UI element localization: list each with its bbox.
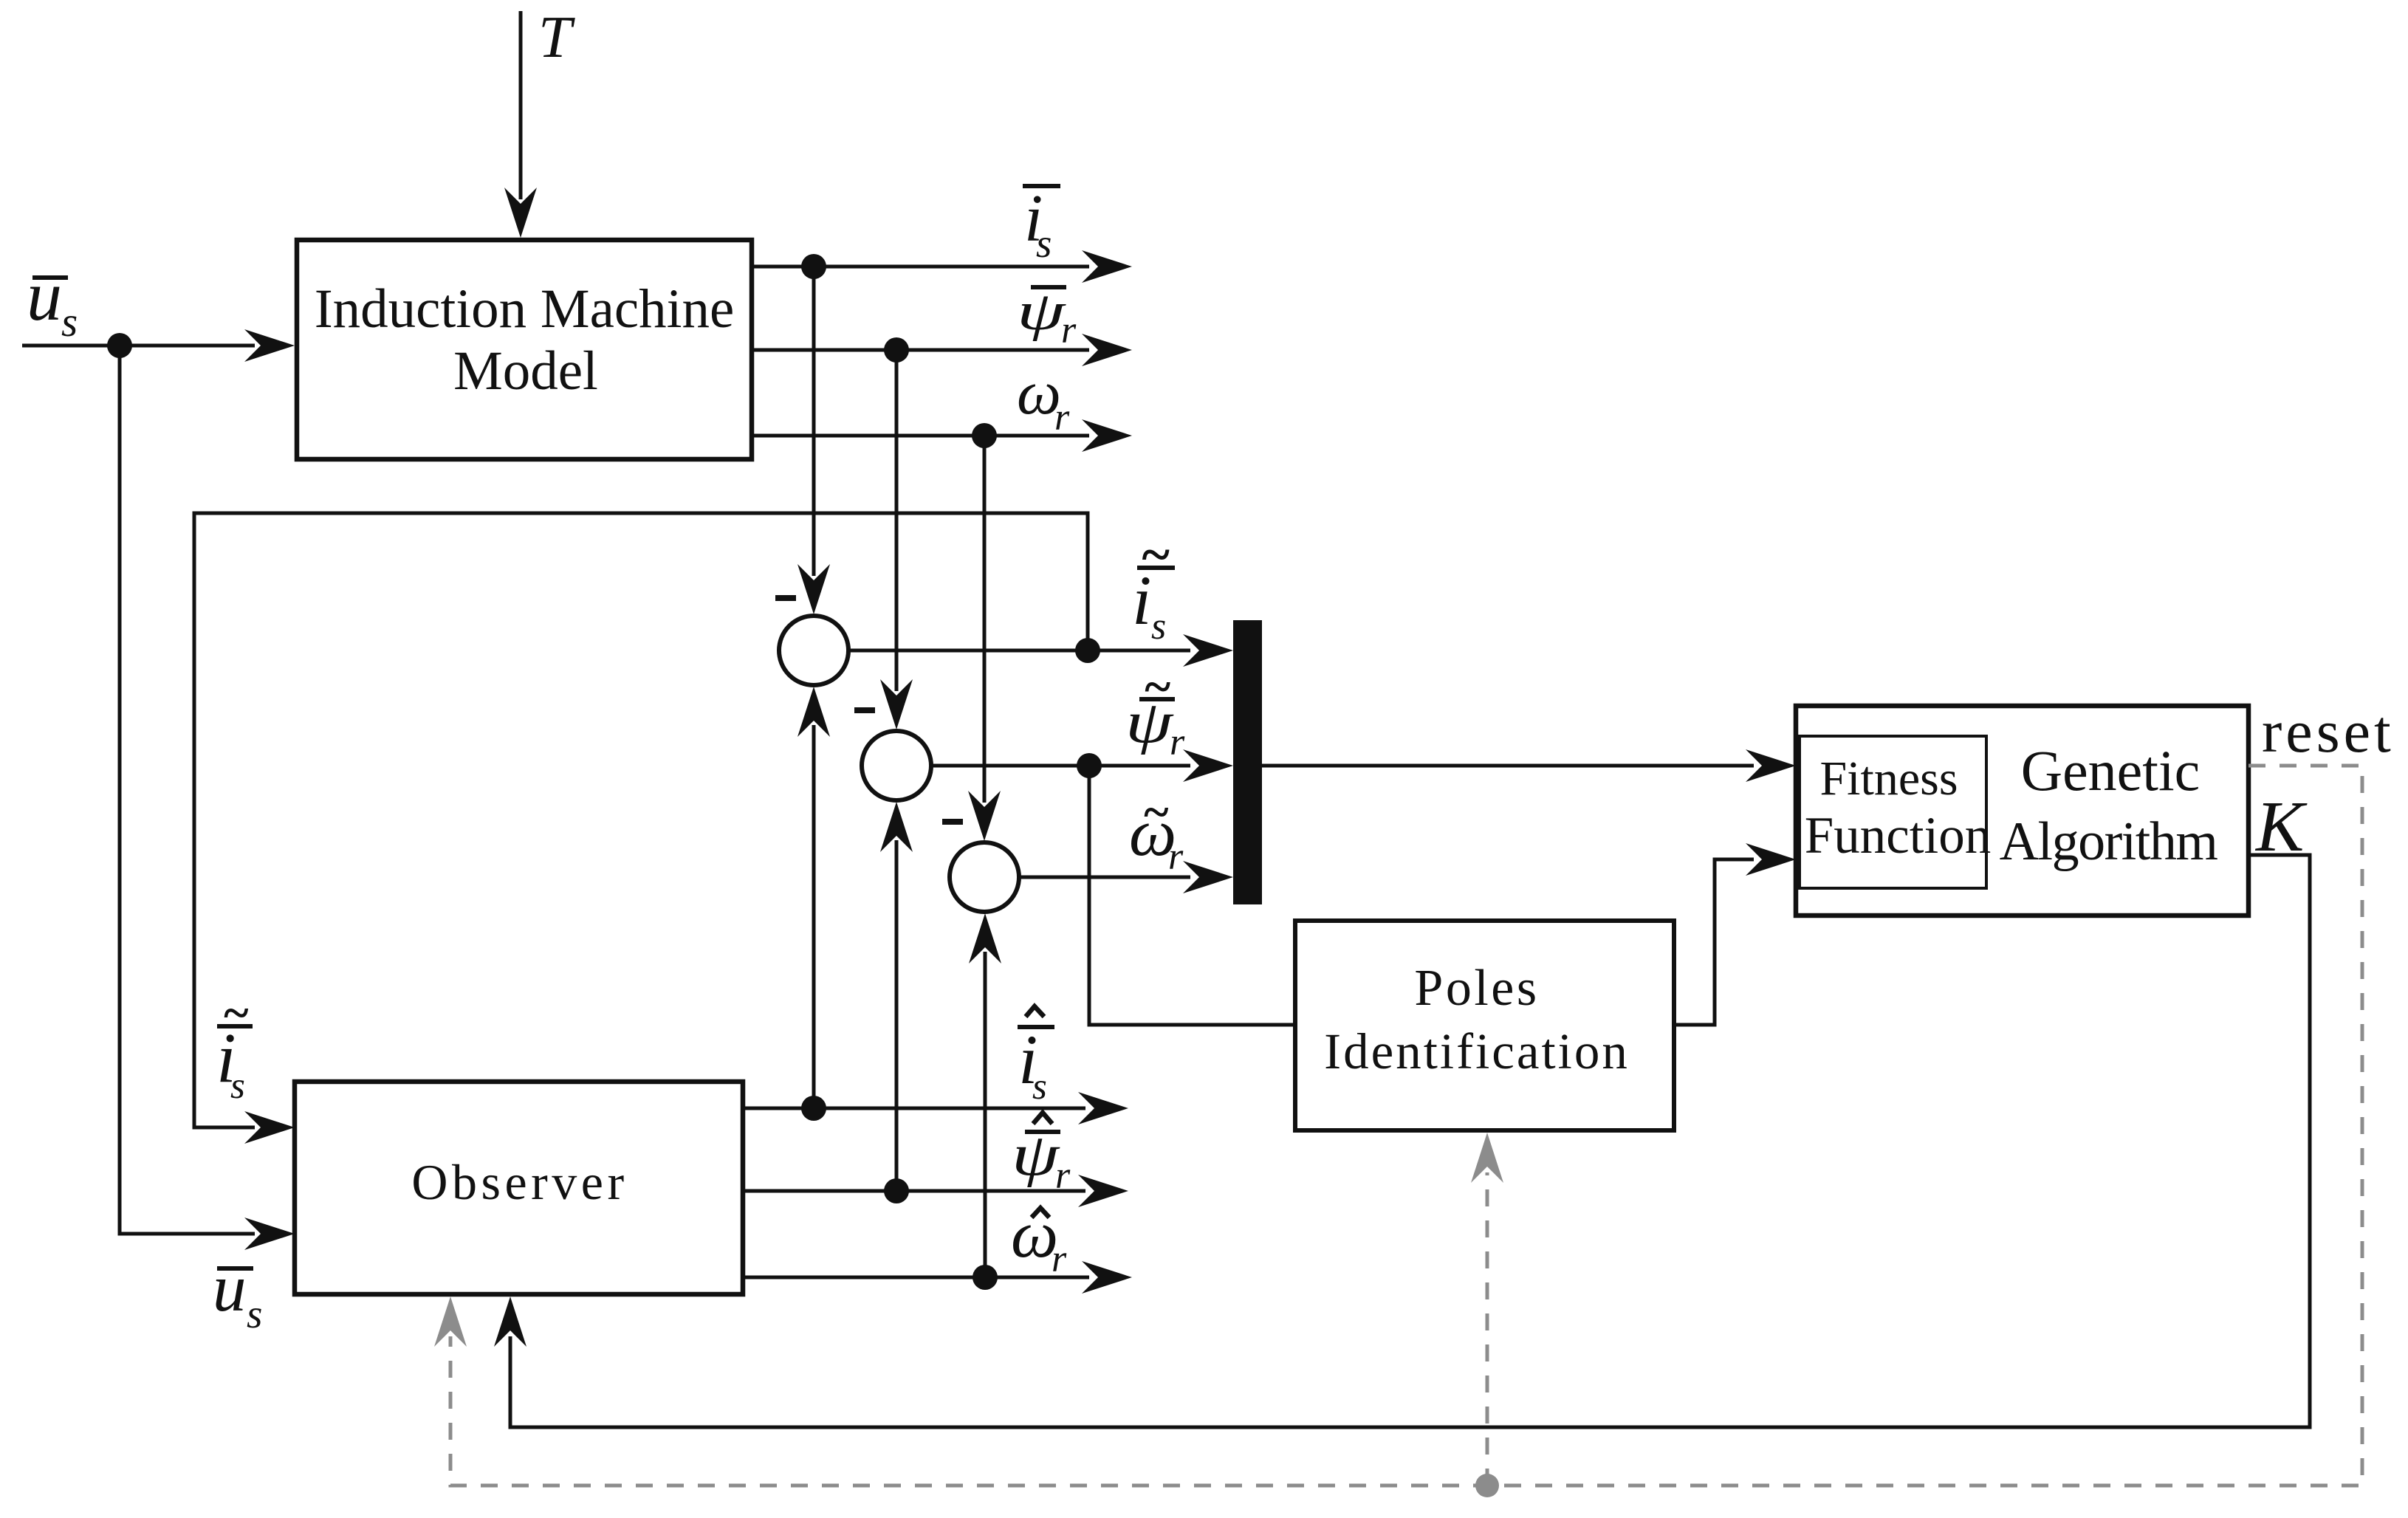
block Induction Machine Model [297, 240, 752, 459]
wire machine output omega_r [752, 419, 1132, 452]
wire psi_r down into summer 2 [880, 350, 913, 729]
svg-text:ψ: ψ [1012, 1122, 1060, 1187]
svg-text:u: u [213, 1251, 247, 1325]
wire i_s hat up into summer 1 [797, 687, 830, 1108]
label omega_r hat [1011, 1197, 1067, 1280]
label psi_r tilde error [1125, 659, 1185, 763]
label i_s hat [1018, 1006, 1054, 1107]
label K [2254, 787, 2308, 867]
summing junction 1 [779, 616, 848, 685]
wire u_s input [22, 329, 295, 362]
svg-text:r: r [1054, 396, 1070, 439]
label omega_r [1017, 358, 1070, 439]
summing junction 3 [950, 842, 1019, 912]
wire i_s down into summer 1 [797, 267, 830, 614]
multiplexer bar [1233, 620, 1262, 904]
svg-text:Identification: Identification [1324, 1023, 1630, 1079]
summer minus sign 2 [854, 707, 875, 713]
wire mux to Genetic Algorithm [1262, 749, 1796, 782]
svg-text:s: s [1032, 1066, 1047, 1107]
wire feedback error i_s to Observer input [194, 513, 1088, 1144]
label omega_r tilde error [1129, 786, 1184, 878]
wire error i_s tilde to mux [848, 634, 1233, 667]
node psi_r hat branch [884, 1178, 909, 1203]
svg-text:s: s [1036, 221, 1052, 266]
svg-text:reset: reset [2262, 698, 2395, 765]
wire error omega_r tilde to mux [1019, 861, 1233, 893]
node i_s hat branch [801, 1096, 826, 1121]
wire machine output psi_r [752, 334, 1132, 366]
node omega_r hat branch [973, 1265, 998, 1290]
wire reset dashed to Observer [434, 766, 2362, 1486]
wire observer output psi_r hat [745, 1175, 1128, 1207]
block Poles Identification [1295, 921, 1674, 1130]
svg-text:Induction Machine: Induction Machine [315, 278, 735, 340]
wire omega_r hat up into summer 3 [969, 913, 1001, 1277]
svg-text:r: r [1052, 1238, 1067, 1280]
svg-text:s: s [230, 1065, 245, 1107]
svg-text:ψ: ψ [1125, 690, 1174, 755]
svg-text:T: T [538, 4, 575, 70]
wire reset dashed to Poles Identification [1471, 1133, 1503, 1486]
label u_s at Observer input [213, 1251, 262, 1336]
wire machine output i_s [752, 250, 1132, 283]
svg-text:ψ: ψ [1017, 281, 1066, 341]
svg-text:Observer: Observer [411, 1154, 628, 1210]
node i_s branch [801, 254, 826, 279]
block Fitness Function [1800, 736, 1991, 888]
summer minus sign 3 [942, 819, 963, 825]
svg-text:Model: Model [453, 340, 598, 402]
svg-text:s: s [247, 1291, 262, 1336]
node error i_s branch [1075, 638, 1100, 663]
svg-text:s: s [61, 299, 78, 346]
label u_s top-left [27, 256, 78, 346]
label i_s tilde error [1132, 525, 1175, 648]
svg-text:Genetic: Genetic [2021, 738, 2201, 803]
block Genetic Algorithm [1796, 706, 2249, 916]
svg-text:r: r [1055, 1155, 1071, 1197]
wire observer output i_s hat [745, 1092, 1128, 1124]
svg-text:r: r [1061, 309, 1077, 351]
wire u_s down to Observer [120, 346, 295, 1250]
label T [538, 4, 575, 70]
node psi_r branch [884, 337, 909, 363]
svg-text:Poles: Poles [1414, 960, 1539, 1017]
svg-text:Algorithm: Algorithm [2000, 811, 2218, 872]
block Observer [295, 1082, 743, 1294]
svg-text:r: r [1168, 836, 1184, 878]
label psi_r bar [1017, 281, 1077, 351]
wire T input [504, 11, 537, 238]
wire Poles Identification to Genetic Algorithm [1674, 843, 1796, 1025]
svg-text:K: K [2254, 787, 2308, 867]
summing junction 2 [862, 731, 931, 800]
svg-text:i: i [1132, 561, 1151, 639]
node u_s junction [107, 333, 132, 358]
wire error psi_r down to Poles Identification [1089, 766, 1293, 1025]
summer minus sign 1 [775, 595, 796, 601]
wire observer output omega_r hat [745, 1261, 1132, 1294]
label psi_r hat [1012, 1113, 1071, 1197]
svg-text:Function: Function [1805, 807, 1991, 865]
label i_s tilde at Observer input [216, 986, 253, 1107]
label reset [2262, 698, 2395, 765]
wire error psi_r tilde to mux [931, 749, 1233, 782]
node error psi_r branch [1077, 753, 1102, 778]
node reset branch [1475, 1474, 1499, 1497]
wire psi_r hat up into summer 2 [880, 802, 913, 1191]
svg-text:Fitness: Fitness [1819, 752, 1958, 806]
node omega_r branch [972, 423, 997, 448]
label i_s bar [1023, 181, 1060, 266]
wire omega_r down into summer 3 [968, 436, 1001, 841]
wire K feedback to Observer [494, 855, 2310, 1427]
svg-text:r: r [1170, 721, 1185, 763]
svg-text:u: u [27, 256, 62, 335]
svg-text:s: s [1151, 605, 1166, 648]
